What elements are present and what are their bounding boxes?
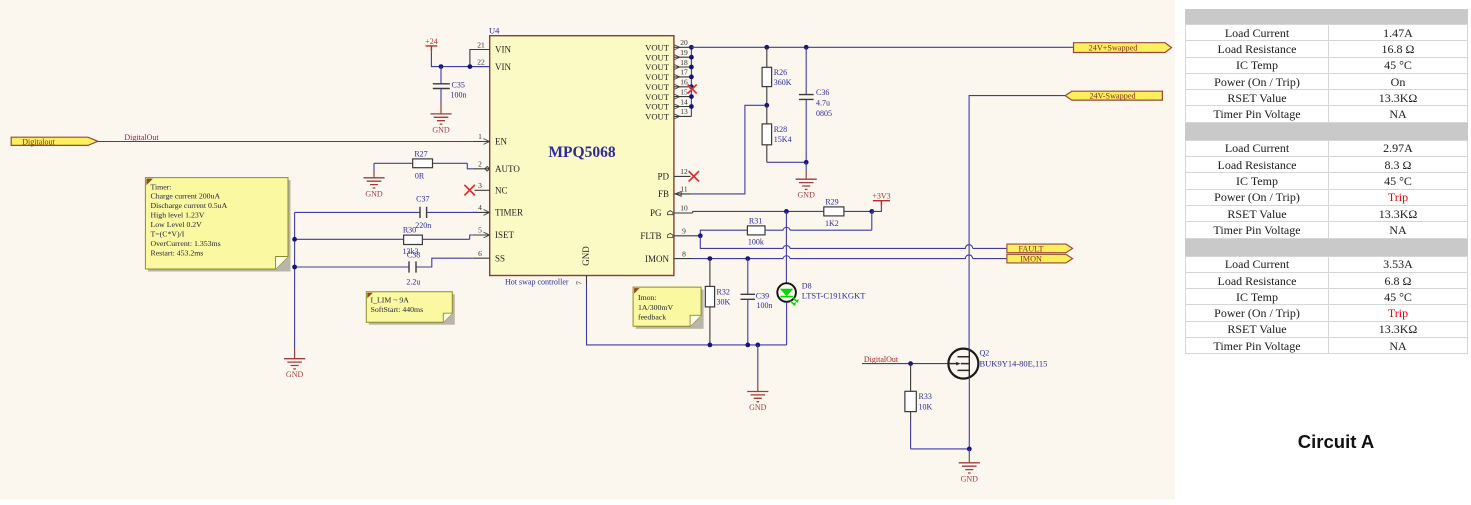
svg-text:ISET: ISET (495, 230, 515, 240)
svg-text:+24: +24 (425, 37, 438, 46)
svg-text:Discharge current 0.5uA: Discharge current 0.5uA (151, 201, 228, 210)
pin 9 FLTB (640, 226, 700, 241)
junction C36 bottom (804, 160, 809, 165)
wire bottom GND bus (587, 285, 787, 345)
svg-text:R27: R27 (414, 149, 427, 158)
ground under R27 net (363, 163, 384, 198)
svg-text:24V+Swapped: 24V+Swapped (1089, 44, 1138, 53)
svg-text:IMON: IMON (1020, 255, 1042, 264)
svg-text:Charge current 200uA: Charge current 200uA (151, 192, 221, 201)
wire IMON net with hops (691, 255, 1007, 259)
svg-text:11: 11 (680, 185, 687, 194)
svg-text:5: 5 (478, 226, 482, 235)
ground bottom bus (747, 345, 768, 412)
ground under C35 (440, 103, 442, 114)
svg-text:Q2: Q2 (980, 349, 990, 358)
svg-text:PD: PD (657, 172, 669, 182)
svg-text:Timer:: Timer: (151, 182, 172, 191)
svg-text:Digitalout: Digitalout (22, 137, 55, 146)
svg-text:R31: R31 (749, 216, 762, 225)
junction PG/LED (784, 209, 789, 214)
ground under C36 (796, 162, 817, 199)
pin 4 TIMER (473, 203, 523, 218)
svg-text:20: 20 (680, 38, 688, 47)
svg-text:High level 1.23V: High level 1.23V (151, 211, 205, 220)
wire R31/+3V3 vertical tie (871, 211, 873, 230)
wire SS net (295, 258, 473, 267)
resistor R27 (413, 149, 433, 180)
svg-text:C38: C38 (407, 250, 420, 259)
svg-text:14: 14 (680, 97, 688, 106)
wire R28 bottom to C36 bottom (767, 161, 806, 163)
svg-text:R33: R33 (919, 392, 932, 401)
pin 2 AUTO (473, 160, 521, 175)
wire FLTB pullup net with hop over LED wire (700, 227, 872, 235)
svg-text:C35: C35 (452, 81, 465, 90)
ground under Q2 (959, 449, 980, 483)
svg-text:0R: 0R (415, 171, 425, 180)
wire VIN net (431, 51, 489, 66)
VOUT pins 20-13 (645, 38, 691, 122)
svg-text:Hot swap controller: Hot swap controller (505, 278, 569, 287)
svg-text:+3V3: +3V3 (872, 191, 890, 200)
junction ISET bus (292, 237, 297, 242)
svg-text:VOUT: VOUT (645, 42, 670, 52)
svg-text:Imon:: Imon: (638, 293, 657, 302)
svg-text:15K4: 15K4 (774, 135, 792, 144)
svg-text:220n: 220n (415, 221, 431, 230)
svg-text:VOUT: VOUT (645, 112, 670, 122)
svg-text:BUK9Y14-80E,115: BUK9Y14-80E,115 (980, 359, 1048, 369)
svg-text:21: 21 (477, 40, 485, 49)
pin 22 VIN (470, 57, 512, 71)
junction VIN/C35 (439, 64, 444, 69)
svg-text:22: 22 (477, 57, 485, 66)
svg-text:7: 7 (575, 281, 584, 285)
svg-text:DigitalOut: DigitalOut (124, 133, 159, 142)
red X on PD pin (689, 171, 699, 181)
junction FB / R26-R28 (764, 103, 769, 108)
capacitor C36 (799, 47, 832, 162)
wire ISET net (295, 235, 473, 239)
svg-text:1: 1 (478, 132, 482, 141)
capacitor C35 (433, 67, 467, 103)
svg-text:4.7u: 4.7u (816, 99, 830, 108)
pin 21 VIN (470, 40, 512, 66)
wire Q2 source net (911, 378, 970, 449)
svg-text:100n: 100n (451, 91, 467, 100)
wire Q2 gate net (862, 363, 949, 365)
svg-text:C39: C39 (756, 291, 769, 300)
svg-text:GND: GND (581, 246, 591, 266)
svg-text:VOUT: VOUT (645, 102, 670, 112)
schematic sheet background (0, 0, 1175, 499)
junction R26 top (764, 45, 769, 50)
svg-text:10K: 10K (919, 402, 933, 411)
capacitor C39 (741, 259, 773, 345)
svg-text:8: 8 (682, 249, 686, 258)
svg-text:1K2: 1K2 (825, 219, 839, 228)
capacitor C38 (406, 250, 420, 286)
red X on NC pin (464, 185, 475, 196)
svg-text:100n: 100n (757, 301, 773, 310)
wire AUTO net left segment (374, 163, 473, 169)
svg-text:EN: EN (495, 137, 507, 147)
power +3V3 symbol (872, 191, 891, 211)
svg-text:VOUT: VOUT (645, 62, 670, 72)
junction C39 top (745, 256, 750, 261)
svg-text:3: 3 (478, 181, 482, 190)
wire EN net (98, 141, 473, 143)
svg-text:D8: D8 (802, 282, 812, 291)
svg-text:C37: C37 (416, 194, 429, 203)
svg-text:VOUT: VOUT (645, 72, 670, 82)
svg-text:feedback: feedback (638, 313, 666, 322)
wire VOUT main net (691, 46, 1073, 48)
power flag 24V-Swapped (1065, 91, 1162, 100)
svg-text:1A/300mV: 1A/300mV (638, 303, 673, 312)
junction R33 top (908, 361, 913, 366)
junction SS bus (292, 265, 297, 270)
junction R32 top (708, 256, 713, 261)
svg-text:MPQ5068: MPQ5068 (548, 144, 615, 161)
pin 6 SS (473, 249, 505, 264)
svg-text:19: 19 (680, 48, 688, 57)
transistor Q2 (948, 349, 1047, 379)
pin 11 FB (658, 185, 691, 199)
junction VIN pin21 branch (468, 64, 473, 69)
svg-text:13: 13 (680, 107, 688, 116)
resistor R31 (747, 216, 765, 246)
svg-text:R29: R29 (825, 198, 838, 207)
svg-text:100k: 100k (748, 238, 764, 247)
power flag Digitalout (11, 137, 98, 146)
svg-text:Restart: 453.2ms: Restart: 453.2ms (151, 248, 204, 257)
svg-text:17: 17 (680, 68, 688, 77)
resistor R29 (824, 198, 844, 228)
svg-text:0805: 0805 (816, 109, 832, 118)
svg-text:10: 10 (680, 204, 688, 213)
svg-text:I_LIM ~ 9A: I_LIM ~ 9A (371, 296, 410, 305)
svg-text:LTST-C191KGKT: LTST-C191KGKT (802, 291, 866, 301)
pin 12 PD (657, 167, 690, 181)
svg-text:2.2u: 2.2u (406, 278, 420, 287)
svg-text:2: 2 (478, 160, 482, 169)
svg-text:12: 12 (680, 167, 688, 176)
svg-text:PG: PG (650, 208, 662, 218)
resistor R33 (905, 364, 933, 420)
svg-text:4: 4 (478, 203, 482, 212)
svg-text:360K: 360K (774, 78, 792, 87)
ground left bus (284, 349, 305, 380)
svg-text:SoftStart: 440ms: SoftStart: 440ms (371, 305, 424, 314)
note Timer (145, 178, 290, 272)
svg-text:TIMER: TIMER (495, 208, 523, 218)
pin 1 EN (473, 132, 508, 147)
pin 3 NC (475, 181, 508, 196)
svg-text:R32: R32 (717, 288, 730, 297)
resistor R26 (762, 47, 792, 105)
svg-text:C36: C36 (816, 88, 829, 97)
capacitor C37 (415, 194, 477, 230)
svg-text:6: 6 (478, 249, 482, 258)
svg-text:R28: R28 (774, 125, 787, 134)
svg-text:15: 15 (680, 87, 688, 96)
wire TIMER net (295, 211, 420, 213)
svg-text:FLTB: FLTB (640, 231, 661, 241)
svg-text:VOUT: VOUT (645, 82, 670, 92)
svg-text:IMON: IMON (645, 254, 669, 264)
junction source/GND (967, 447, 972, 452)
svg-text:NC: NC (495, 186, 508, 196)
power +24 symbol (425, 37, 438, 52)
svg-text:VOUT: VOUT (645, 92, 670, 102)
svg-text:16: 16 (680, 78, 688, 87)
resistor R32 (705, 259, 730, 345)
wire left GND bus (294, 212, 296, 348)
junction R29 right / +3V3 (869, 209, 874, 214)
power flag 24V+Swapped (1074, 43, 1172, 53)
svg-text:24V-Swapped: 24V-Swapped (1089, 92, 1135, 101)
wire VOUT tie bus (690, 47, 692, 116)
svg-text:FAULT: FAULT (1018, 245, 1043, 254)
junction C39 bottom (745, 343, 750, 348)
resistor R28 (762, 105, 791, 162)
svg-text:R30: R30 (403, 226, 416, 235)
wire FB net (691, 105, 764, 194)
svg-text:9: 9 (682, 226, 686, 235)
junction C36 top (804, 45, 809, 50)
pin 10 PG (650, 204, 693, 219)
svg-text:OverCurrent: 1.353ms: OverCurrent: 1.353ms (151, 239, 221, 248)
power flag IMON (1007, 254, 1073, 263)
junction GND drop (755, 343, 760, 348)
svg-text:18: 18 (680, 58, 688, 67)
note I_LIM (366, 292, 455, 325)
svg-text:R26: R26 (774, 68, 787, 77)
note Imon (633, 287, 704, 329)
pin 8 IMON (645, 249, 691, 264)
svg-text:SS: SS (495, 253, 505, 263)
svg-text:30K: 30K (717, 298, 731, 307)
svg-text:VIN: VIN (495, 62, 511, 72)
pin 7 GND (bottom) (575, 276, 587, 286)
junction R32 bottom (708, 343, 713, 348)
wire FAULT net with hops (700, 236, 1007, 249)
junction FLTB pin (698, 233, 703, 238)
LED D8 (777, 211, 866, 345)
svg-text:VOUT: VOUT (645, 52, 670, 62)
red X on VOUT pin 16 (688, 85, 697, 94)
svg-text:T=(C*V)/I: T=(C*V)/I (151, 230, 185, 239)
svg-text:FB: FB (658, 189, 669, 199)
svg-text:AUTO: AUTO (495, 164, 520, 174)
power flag FAULT (1007, 244, 1073, 253)
svg-text:U4: U4 (489, 26, 500, 36)
pin 5 ISET (473, 226, 515, 241)
svg-text:Low Level 0.2V: Low Level 0.2V (151, 220, 203, 229)
svg-text:VIN: VIN (495, 45, 511, 55)
junction dots VOUT pins (689, 45, 694, 109)
wire PG net (693, 210, 872, 212)
resistor R30 (403, 226, 423, 257)
wire 24V-Swapped net (969, 96, 1065, 349)
svg-text:DigitalOut: DigitalOut (864, 355, 899, 364)
IC U4 MPQ5068 body (489, 26, 674, 287)
